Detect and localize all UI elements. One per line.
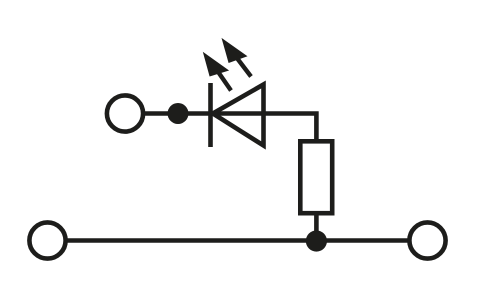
terminal circle bottom-left — [29, 222, 65, 258]
terminal circle left (input) — [107, 95, 143, 131]
LED D1 emission arrow right — [222, 38, 252, 77]
terminal circle bottom-right — [409, 222, 445, 258]
resistor R1 — [300, 141, 332, 213]
LED D1 cathode bar — [208, 83, 213, 147]
wire input to LED to resistor corner — [143, 114, 316, 144]
wire resistor to bottom rail — [314, 213, 319, 240]
LED D1 emission arrow left — [203, 52, 231, 91]
bottom rail wire — [66, 238, 408, 243]
LED D1 triangle — [213, 85, 264, 146]
junction dot A — [168, 103, 189, 124]
junction dot B on rail — [306, 230, 327, 251]
